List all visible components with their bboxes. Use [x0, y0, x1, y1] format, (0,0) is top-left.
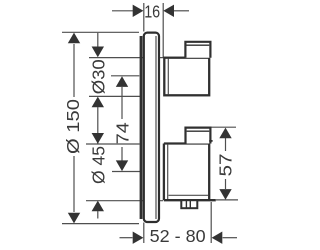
dimension 52-80 arrow left: [133, 232, 144, 244]
dimension Ø150 arrow down: [68, 213, 80, 224]
svg-text:Ø 150: Ø 150: [63, 99, 83, 154]
plate inner right contour: [155, 36, 157, 219]
extension line Ø45 top: [86, 143, 140, 145]
dimension Ø45 tail below: [97, 211, 99, 219]
svg-text:Ø 45: Ø 45: [88, 146, 108, 184]
dimension Ø30 tail above: [97, 33, 99, 47]
extension line grip bottom (Ø30 bottom): [89, 95, 142, 97]
upper handle grip: [164, 58, 209, 96]
lower grip inner left line: [167, 144, 169, 199]
wall line (finished wall reference): [143, 3, 145, 243]
dimension 57 arrow down: [219, 189, 231, 200]
extension line 57 bottom (right of handle): [216, 199, 238, 201]
svg-text:52 - 80: 52 - 80: [150, 226, 206, 246]
escutcheon plate back lip: [140, 36, 143, 219]
dimension 57 line: [225, 138, 227, 189]
svg-text:57: 57: [216, 154, 236, 177]
shared tail between Ø30 and Ø45: [97, 107, 99, 144]
extension line grip top (Ø30 top): [89, 57, 164, 59]
lower handle grip: [164, 144, 216, 201]
extension line 74 bottom (lower handle axis): [112, 171, 140, 173]
upper handle button: [185, 42, 210, 58]
tab inner divider left: [185, 201, 187, 209]
under-handle tab: [181, 200, 197, 208]
dimension Ø45 arrow bottom: [92, 201, 104, 212]
extension line top of plate (Ø150 top): [62, 31, 139, 33]
lower handle front stub: [209, 140, 212, 142]
dimension 74 arrow down: [116, 160, 128, 171]
extension line 74 top (upper handle axis): [111, 75, 139, 77]
dimension 52-80 tail right: [223, 237, 237, 239]
extension line bottom of plate (Ø150 bottom): [62, 223, 139, 225]
dimension 16 arrow right: [163, 5, 174, 17]
lower button inner line: [187, 130, 210, 132]
dimension 52-80 arrow right: [212, 232, 223, 244]
dimension 16 line right: [174, 10, 189, 12]
dimension Ø45 arrow top: [92, 133, 104, 144]
dimension 16 line left: [112, 10, 133, 12]
lower handle button: [186, 128, 211, 144]
extension line Ø45 bottom (left of handle): [86, 200, 163, 202]
dimension Ø150 arrow up: [68, 33, 80, 44]
dimension 52-80 tail left: [120, 237, 133, 239]
upper button inner line: [187, 44, 210, 46]
dimension 16 arrow left: [133, 5, 144, 17]
escutcheon plate front profile: [144, 33, 159, 222]
svg-text:16: 16: [144, 2, 160, 22]
svg-text:74: 74: [113, 122, 133, 144]
lower grip inner bottom line: [169, 194, 209, 196]
tab inner divider right: [189, 201, 191, 209]
extension line 57 top (button top): [211, 126, 236, 128]
dimension 74 line: [121, 87, 123, 161]
dimension 74 arrow up: [116, 76, 128, 87]
extension line 52-80 right (handle front): [210, 202, 212, 243]
svg-text:Ø30: Ø30: [88, 59, 108, 94]
extension line right of 16 dim: [162, 3, 164, 57]
dimension 57 arrow up: [219, 128, 231, 139]
upper grip inner left line: [167, 59, 169, 95]
dimension Ø30 arrow bottom: [92, 97, 104, 108]
dimension Ø30 arrow top: [92, 47, 104, 58]
dimension Ø150 line: [73, 44, 75, 212]
